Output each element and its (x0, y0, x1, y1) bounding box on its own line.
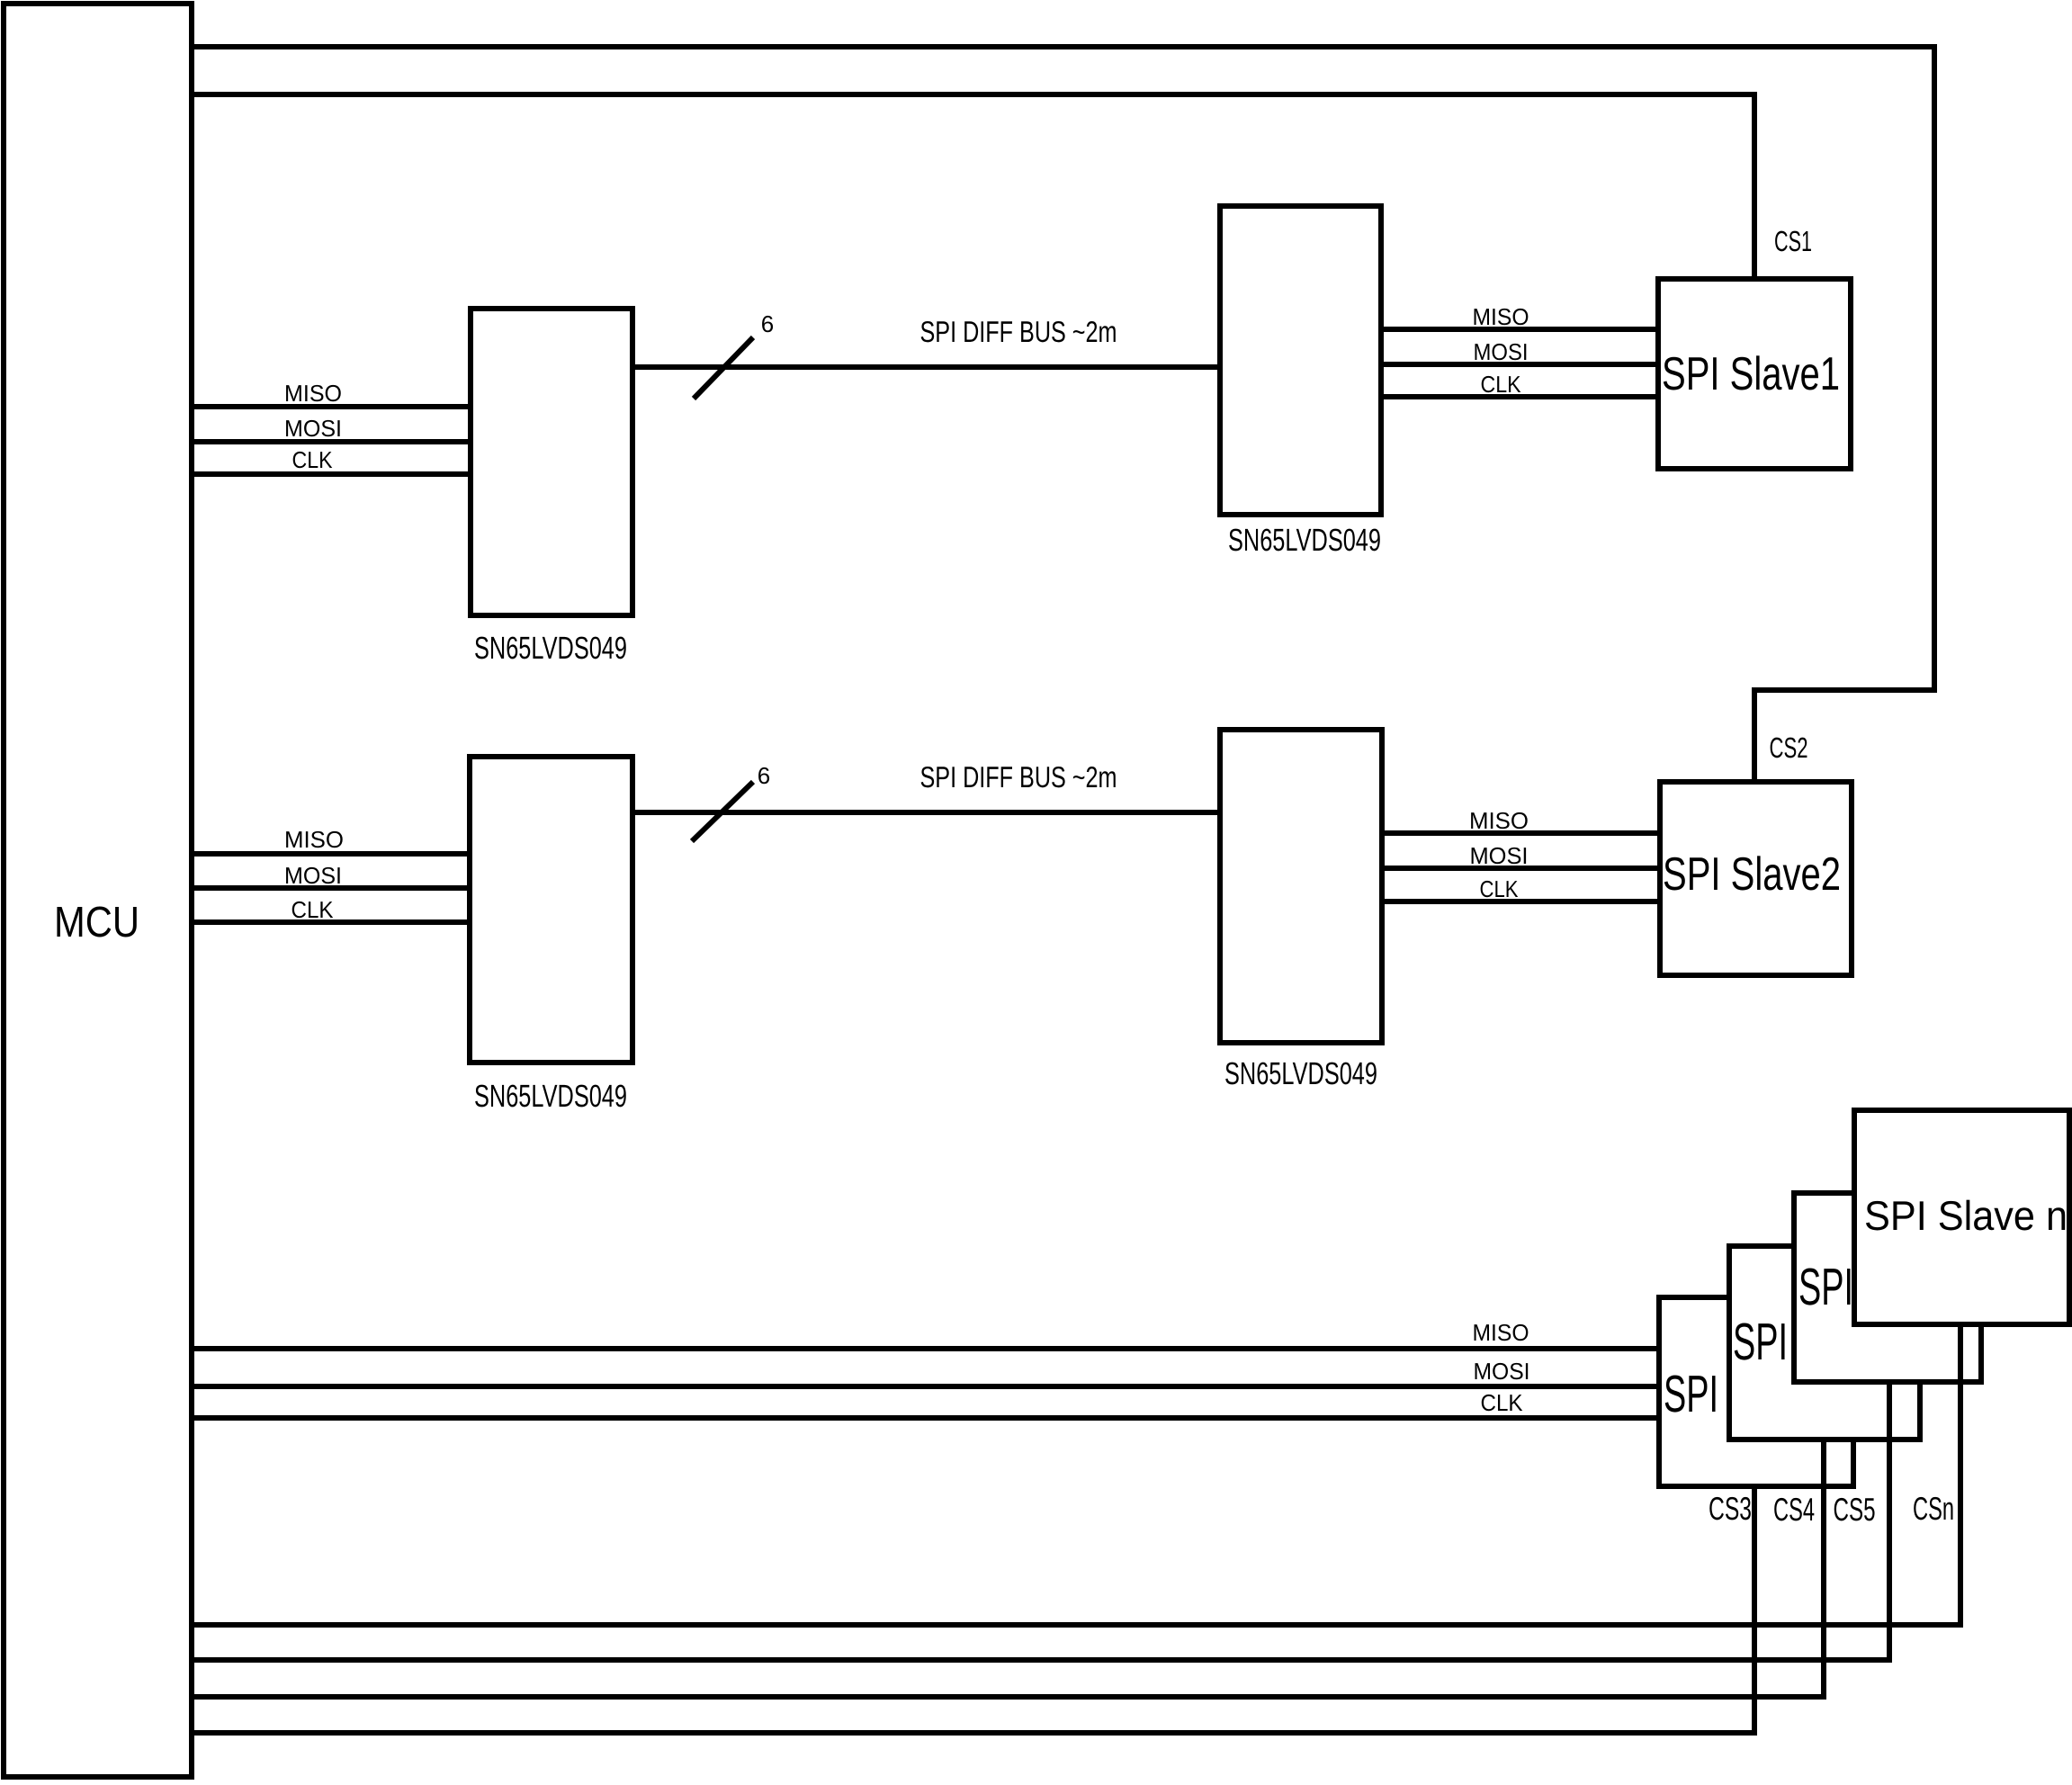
wire MOSI (U5 to SPI Slave2) (1382, 866, 1660, 871)
wire CSn net (MCU to SPI Slave n CS pin) (192, 1324, 1960, 1625)
wire MOSI (MCU to U4) (192, 885, 470, 891)
svg-text:SPI DIFF BUS ~2m: SPI DIFF BUS ~2m (920, 760, 1117, 794)
svg-text:MOSI: MOSI (284, 862, 342, 889)
wire CLK (U5 to SPI Slave2) (1382, 899, 1660, 904)
driver U2 SN65LVDS049 (471, 309, 632, 615)
wire CLK (MCU to U2) (192, 471, 471, 477)
svg-text:CLK: CLK (1480, 875, 1520, 902)
svg-text:MOSI: MOSI (1470, 842, 1529, 869)
driver U4 SN65LVDS049 (470, 757, 632, 1063)
wire CS3 net (MCU to SPI Slave3 CS pin) (192, 1486, 1754, 1733)
bus width slash 2 (692, 782, 753, 841)
svg-text:SPI DIFF BUS ~2m: SPI DIFF BUS ~2m (920, 315, 1117, 348)
svg-text:MISO: MISO (1473, 303, 1529, 330)
svg-text:SPI Slave1: SPI Slave1 (1662, 348, 1840, 400)
svg-text:CS5: CS5 (1834, 1491, 1876, 1528)
wire MISO (MCU to U2) (192, 404, 471, 409)
svg-text:MOSI: MOSI (1474, 338, 1529, 365)
svg-text:CS4: CS4 (1773, 1491, 1815, 1528)
svg-text:CLK: CLK (1481, 1389, 1524, 1416)
svg-text:MCU: MCU (54, 899, 139, 946)
svg-text:SN65LVDS049: SN65LVDS049 (474, 631, 627, 666)
svg-text:6: 6 (761, 310, 774, 337)
SPI Slave n block (1854, 1110, 2069, 1324)
wire MISO (MCU to SPI Slave3..n) (192, 1346, 1659, 1351)
svg-text:MISO: MISO (284, 380, 342, 407)
svg-text:MISO: MISO (284, 826, 344, 853)
wire SPI diff bus 2 (632, 810, 1220, 815)
wire MOSI (U3 to SPI Slave1) (1381, 362, 1658, 367)
svg-text:MISO: MISO (1469, 807, 1529, 834)
MCU U1 block (4, 4, 192, 1777)
receiver U5 SN65LVDS049 (1220, 730, 1382, 1043)
svg-text:SN65LVDS049: SN65LVDS049 (1224, 1056, 1377, 1091)
wire MISO (U5 to SPI Slave2) (1382, 830, 1660, 836)
svg-text:SN65LVDS049: SN65LVDS049 (474, 1079, 627, 1114)
wire SPI diff bus 1 (632, 364, 1220, 370)
wire CLK (MCU to SPI Slave3..n) (192, 1415, 1659, 1421)
svg-text:MISO: MISO (1473, 1319, 1529, 1346)
svg-text:CLK: CLK (1481, 371, 1522, 398)
svg-text:MOSI: MOSI (1474, 1358, 1530, 1385)
svg-text:SPI Slave2: SPI Slave2 (1663, 848, 1841, 901)
svg-text:SPI: SPI (1798, 1258, 1853, 1316)
SPI Slave1 block (1658, 279, 1851, 469)
bus width slash 1 (694, 337, 753, 399)
svg-text:SPI Slave n: SPI Slave n (1864, 1192, 2068, 1239)
svg-text:SPI: SPI (1733, 1313, 1788, 1371)
wire CS5 net (MCU to SPI Slave5 CS pin) (192, 1382, 1889, 1660)
svg-text:SPI: SPI (1664, 1365, 1718, 1423)
receiver U3 SN65LVDS049 (1220, 206, 1381, 515)
wire MISO (U3 to SPI Slave1) (1381, 327, 1658, 332)
wire MISO (MCU to U4) (192, 851, 470, 857)
svg-text:CS2: CS2 (1770, 731, 1808, 764)
svg-text:SN65LVDS049: SN65LVDS049 (1228, 523, 1381, 558)
wire CS4 net (MCU to SPI Slave4 CS pin) (192, 1440, 1824, 1697)
wire CLK (MCU to U4) (192, 919, 470, 925)
SPI Slave3 block (1659, 1297, 1853, 1486)
wire CS2 net (MCU to SPI Slave2 CS pin) (192, 47, 1934, 782)
svg-text:CLK: CLK (292, 446, 334, 473)
SPI Slave4 block (1729, 1246, 1920, 1440)
wire CLK (U3 to SPI Slave1) (1381, 394, 1658, 399)
svg-text:MOSI: MOSI (284, 415, 342, 442)
svg-text:6: 6 (758, 762, 770, 789)
svg-text:CS1: CS1 (1774, 225, 1812, 257)
wire MOSI (MCU to SPI Slave3..n) (192, 1384, 1659, 1389)
svg-text:CS3: CS3 (1709, 1490, 1752, 1527)
wire MOSI (MCU to U2) (192, 439, 471, 444)
svg-text:CLK: CLK (292, 896, 335, 923)
SPI Slave2 block (1660, 782, 1852, 975)
SPI Slave5 block (1794, 1193, 1981, 1382)
wire CS1 net (MCU to SPI Slave1 CS pin) (192, 94, 1754, 279)
svg-text:CSn: CSn (1913, 1490, 1954, 1527)
